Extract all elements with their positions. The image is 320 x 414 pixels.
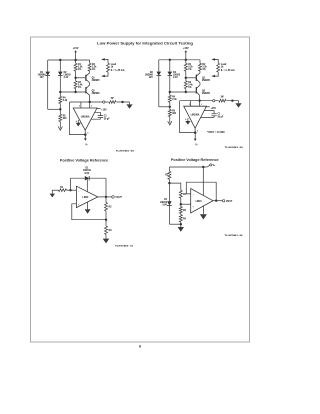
resistor R1 bbox=[75, 60, 77, 63]
zener diode D1 (bottom-left) bbox=[85, 176, 89, 180]
svg-text:TL/H/7461–29: TL/H/7461–29 bbox=[116, 149, 135, 152]
resistor R2 (bottom-right) bbox=[179, 190, 182, 198]
op-amp U2 LM108A (right) bbox=[184, 106, 207, 128]
svg-text:5k*: 5k* bbox=[221, 97, 225, 99]
ground pin op-amp (left) bbox=[77, 120, 79, 123]
svg-text:LM108A: LM108A bbox=[191, 114, 200, 117]
svg-text:2.4k: 2.4k bbox=[63, 99, 68, 102]
svg-text:12V: 12V bbox=[40, 77, 45, 79]
wire D3 to node B bbox=[159, 106, 170, 108]
diode D4 bbox=[169, 60, 171, 72]
wire top feedback (bottom-left) bbox=[71, 177, 107, 179]
transistor Q2 (right) bbox=[195, 87, 197, 93]
svg-text:2.4k: 2.4k bbox=[188, 84, 193, 87]
resistor R2 bbox=[89, 60, 91, 63]
svg-text:+15V: +15V bbox=[73, 47, 79, 50]
feedback wire box (right op-amp) bbox=[180, 101, 196, 133]
wire node to divider (bottom-right) bbox=[169, 183, 180, 190]
pin 7 +15V stub bbox=[97, 108, 101, 110]
resistor R4 (right) bbox=[169, 92, 171, 95]
svg-text:LM10: LM10 bbox=[82, 197, 89, 199]
op-amp U4 LM10 (bottom-right) bbox=[191, 189, 213, 214]
svg-text:2: 2 bbox=[189, 104, 190, 106]
resistor 5k (left output) bbox=[108, 101, 116, 104]
output pin down V- (right) bbox=[194, 128, 196, 132]
svg-text:+15V: +15V bbox=[101, 110, 107, 112]
compensation cap C1 (left) bbox=[91, 112, 101, 119]
svg-text:2.4V: 2.4V bbox=[173, 76, 178, 79]
resistor R1 (right) bbox=[185, 60, 187, 64]
svg-text:30 pF: 30 pF bbox=[104, 118, 111, 120]
ground pin op-amp (right) bbox=[187, 118, 189, 121]
svg-text:1%: 1% bbox=[188, 69, 191, 71]
V+ terminal (bottom-right) bbox=[207, 165, 210, 167]
svg-text:12V: 12V bbox=[149, 77, 154, 79]
feedback box (bottom-right) bbox=[186, 182, 216, 201]
svg-text:2N2905: 2N2905 bbox=[202, 93, 211, 95]
output wire (bottom-right) bbox=[213, 200, 222, 202]
non-inverting input path (bottom-left) bbox=[72, 204, 106, 220]
ground at end of output line (left) bbox=[129, 102, 131, 104]
resistor R2 (right) bbox=[199, 60, 201, 64]
wire D1 to node A bbox=[48, 108, 61, 110]
wire left leg down to inverting node bbox=[70, 178, 72, 190]
svg-text:2N2905: 2N2905 bbox=[92, 80, 101, 82]
output terminal VOUT (bottom-right) bbox=[222, 200, 224, 202]
svg-text:2.4k: 2.4k bbox=[172, 98, 177, 101]
svg-text:IL = 1–50 mA: IL = 1–50 mA bbox=[111, 69, 125, 72]
ground bottom of divider (bottom-left) bbox=[103, 239, 110, 244]
resistor R5 (right) bbox=[169, 107, 171, 110]
svg-text:3: 3 bbox=[91, 106, 92, 108]
resistor R3 (right) bbox=[185, 78, 187, 81]
svg-text:5k*: 5k* bbox=[111, 98, 115, 100]
svg-text:Load: Load bbox=[111, 64, 117, 66]
svg-text:TL/H/7461–30: TL/H/7461–30 bbox=[225, 146, 244, 149]
svg-text:2.4k: 2.4k bbox=[78, 84, 83, 87]
svg-text:6.6V: 6.6V bbox=[85, 173, 90, 175]
svg-text:Positive Voltage Reference: Positive Voltage Reference bbox=[60, 158, 109, 162]
feedback wire box (left op-amp) bbox=[70, 102, 86, 135]
pin 7 +15V stub (right) bbox=[207, 106, 210, 108]
output terminal (right) bbox=[213, 100, 215, 102]
svg-text:LM108A: LM108A bbox=[81, 115, 90, 118]
svg-text:TL/H/7461–32: TL/H/7461–32 bbox=[225, 234, 244, 237]
svg-text:1N4611: 1N4611 bbox=[83, 169, 92, 172]
svg-text:Positive Voltage Reference: Positive Voltage Reference bbox=[171, 158, 219, 162]
output terminal VOUT (bottom-left) bbox=[112, 196, 115, 199]
load resistor RLOAD (left) bbox=[102, 59, 108, 63]
non-inverting input stub bbox=[89, 102, 91, 108]
ground bottom (bottom-right) bbox=[180, 224, 182, 227]
zener diode D1 (bottom-right) bbox=[168, 183, 170, 201]
wire top rail left circuit bbox=[48, 59, 90, 61]
transistor Q1 (right) bbox=[195, 75, 197, 81]
svg-text:1%: 1% bbox=[202, 69, 205, 71]
resistor R4 bbox=[59, 92, 61, 96]
svg-text:VOUT: VOUT bbox=[115, 197, 122, 199]
non-inverting input stub (right) bbox=[199, 101, 201, 107]
wire lower rail left circuit bbox=[60, 91, 86, 93]
svg-text:1%: 1% bbox=[78, 87, 81, 89]
feedback right leg (bottom-left) bbox=[105, 178, 107, 197]
resistor R3 bbox=[75, 78, 77, 81]
resistor R4 (bottom-right) bbox=[180, 214, 182, 215]
transistor Q1 bbox=[85, 75, 87, 81]
V+ pin stub (bottom-left) bbox=[86, 178, 88, 192]
svg-text:1%: 1% bbox=[188, 87, 191, 89]
svg-text:Low Power Supply for Integrate: Low Power Supply for Integrated Circuit … bbox=[97, 41, 194, 46]
ground at end of output line (right) bbox=[238, 101, 240, 104]
svg-text:TL/H/7461–31: TL/H/7461–31 bbox=[115, 244, 134, 247]
svg-text:1%: 1% bbox=[92, 69, 95, 71]
wire top rail (bottom-right) bbox=[169, 166, 207, 168]
output pin down V- (left) bbox=[84, 130, 86, 134]
svg-text:LM103: LM103 bbox=[160, 202, 168, 204]
svg-text:2: 2 bbox=[79, 106, 80, 108]
resistor R2 (bottom-left divider) bbox=[105, 197, 107, 203]
svg-text:3.9V: 3.9V bbox=[162, 205, 167, 207]
ground pin op-amp (bottom-right) bbox=[202, 206, 204, 214]
wire lower rail right circuit bbox=[170, 91, 197, 93]
output wire (bottom-left) bbox=[98, 196, 112, 198]
resistor 5k (right output) bbox=[218, 99, 226, 102]
transistor Q2 bbox=[85, 87, 87, 93]
svg-text:*VOUT = 10 VDC: *VOUT = 10 VDC bbox=[207, 132, 225, 134]
ground left of R1 bbox=[51, 190, 53, 193]
wire output line right circuit bbox=[180, 100, 239, 102]
svg-text:2.4V: 2.4V bbox=[64, 76, 69, 79]
svg-text:+15V: +15V bbox=[183, 47, 189, 50]
ground below R5 bbox=[59, 124, 61, 128]
svg-text:30 pF: 30 pF bbox=[218, 117, 225, 119]
diode D3 bbox=[158, 60, 160, 72]
svg-text:2N2905: 2N2905 bbox=[202, 80, 211, 82]
svg-text:+15V: +15V bbox=[211, 108, 217, 110]
page border frame bbox=[31, 37, 250, 342]
output terminal (left) bbox=[103, 101, 105, 103]
svg-text:IL = 1–50 mA: IL = 1–50 mA bbox=[221, 69, 235, 72]
inverting input stub bbox=[80, 102, 82, 108]
svg-text:2N2905: 2N2905 bbox=[92, 93, 101, 95]
op-amp U1 LM108A (left) bbox=[73, 108, 97, 130]
ground below R5 (right) bbox=[169, 119, 171, 123]
wire top rail right circuit bbox=[159, 59, 200, 61]
diode D2 bbox=[59, 60, 61, 72]
diode D1 bbox=[47, 60, 49, 72]
tap wire to non-inverting input bbox=[181, 203, 191, 205]
resistor R1 (bottom-right) bbox=[168, 167, 170, 171]
svg-text:1%: 1% bbox=[78, 69, 81, 71]
resistor R1 (bottom-left) bbox=[52, 189, 58, 191]
resistor R3 (bottom-right) bbox=[179, 207, 182, 214]
V+ pin stub (bottom-right) bbox=[202, 167, 204, 196]
svg-text:6: 6 bbox=[139, 345, 141, 349]
resistor R3 (bottom-left divider) bbox=[105, 220, 107, 226]
compensation cap C1 (right) bbox=[200, 111, 214, 118]
resistor R5 bbox=[59, 109, 61, 114]
op-amp U3 LM10 (bottom-left) bbox=[76, 186, 97, 207]
inverting input stub (right) bbox=[190, 101, 192, 107]
wire bottom rail (bottom-right) bbox=[169, 223, 180, 225]
ground pin op-amp (bottom-left) bbox=[87, 202, 89, 209]
svg-text:Load: Load bbox=[221, 64, 227, 66]
load resistor RLOAD (right) bbox=[212, 59, 218, 63]
wire output line left circuit bbox=[70, 101, 130, 103]
svg-text:6: 6 bbox=[197, 130, 198, 132]
svg-text:VOUT: VOUT bbox=[226, 201, 233, 203]
svg-text:LM10: LM10 bbox=[196, 201, 203, 203]
